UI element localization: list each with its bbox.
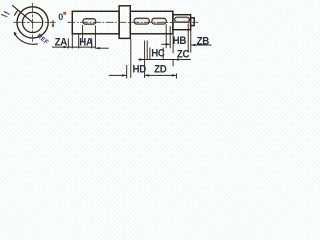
svg-text:HD: HD xyxy=(133,63,147,76)
svg-text:HA: HA xyxy=(79,36,93,49)
svg-text:ZA: ZA xyxy=(55,36,68,49)
svg-text:ZB: ZB xyxy=(197,35,210,48)
svg-text:HB: HB xyxy=(173,34,187,47)
svg-text:0: 0 xyxy=(58,12,63,22)
svg-text:ZC: ZC xyxy=(177,48,190,61)
svg-text:ZD: ZD xyxy=(154,63,167,76)
svg-text:HC: HC xyxy=(151,47,165,60)
